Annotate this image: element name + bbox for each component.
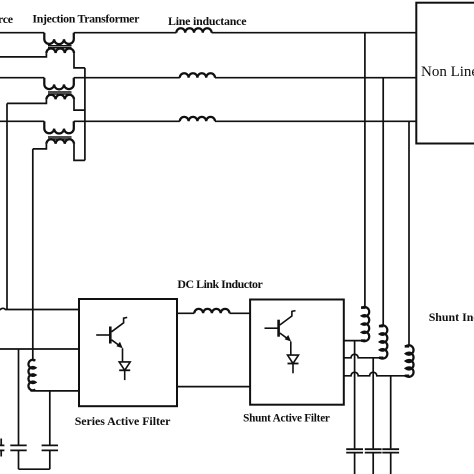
svg-text:DC Link Inductor: DC Link Inductor	[177, 277, 263, 291]
wire phase C line segment	[74, 120, 180, 122]
transistor Q	[277, 320, 280, 337]
wire drop to capacitor C6	[390, 376, 392, 449]
line inductance L1	[176, 28, 211, 32]
shunt inductor L6	[379, 325, 384, 328]
svg-text:urce: urce	[0, 12, 13, 26]
wire phase C to load	[215, 120, 416, 122]
transistor Q	[109, 327, 112, 344]
wire dc link top left	[177, 312, 194, 314]
wire T3 secondary right lead	[74, 144, 85, 161]
series active filter box U1	[79, 299, 177, 406]
wire phase A line segment	[74, 32, 177, 34]
wire capacitor common bottom	[19, 468, 50, 470]
diode D	[119, 362, 130, 370]
capacitor C4	[346, 449, 363, 452]
wire series filter input A (with crossover hop at source bus)	[0, 308, 79, 309]
wire series filter input C from L4	[33, 390, 79, 391]
svg-text:Injection Transformer: Injection Transformer	[32, 11, 140, 25]
shunt active filter box U2	[250, 300, 344, 405]
capacitor C1 (at image edge)	[0, 439, 2, 445]
transformer T2 core	[48, 92, 72, 94]
wire drop to capacitor C2	[18, 349, 20, 445]
wire drop to capacitor C4	[354, 341, 356, 449]
wire drop to capacitor C3	[49, 391, 51, 445]
wire T3 secondary left lead	[33, 144, 47, 149]
wire shunt branch B (vertical drop from phase B)	[382, 78, 384, 326]
wire T2 secondary left lead	[7, 99, 46, 103]
capacitor C3	[42, 445, 58, 450]
transformer T3 secondary winding	[46, 139, 74, 144]
wire shunt filter output 3 (hops over drops 1,2)	[344, 372, 409, 376]
wire phase B source segment	[0, 77, 44, 79]
svg-text:Shunt Active Filter: Shunt Active Filter	[243, 413, 330, 425]
transformer T3 core	[48, 137, 72, 139]
wire drop to capacitor C5	[372, 358, 374, 449]
wire from T3 secondary left down to filter inductor L4	[32, 149, 34, 361]
svg-text:Line inductance: Line inductance	[168, 14, 247, 28]
diode D	[288, 355, 299, 363]
shunt inductor L7	[405, 345, 410, 348]
injection transformer T2 primary winding	[44, 78, 74, 90]
shunt inductor L5	[361, 306, 366, 309]
injection transformer T1 primary winding	[44, 33, 74, 44]
wire dc link bottom	[177, 386, 250, 388]
wire shunt filter output 2 (hops over drop 1)	[344, 354, 383, 358]
capacitor C2	[10, 445, 26, 450]
svg-text:Shunt Inductor: Shunt Inductor	[429, 310, 474, 324]
wire phase B line segment	[74, 77, 180, 79]
wire T2 secondary right lead	[74, 99, 85, 110]
svg-text:Series Active Filter: Series Active Filter	[75, 414, 171, 428]
dc link inductor L8	[194, 309, 229, 313]
transformer T1 secondary winding	[46, 48, 74, 53]
wire series filter input B	[0, 348, 79, 350]
transformer T2 secondary winding	[46, 95, 74, 100]
line inductance L3	[180, 117, 215, 121]
wire phase C source segment	[0, 120, 44, 122]
transformer T1 core	[48, 46, 72, 48]
capacitor C6	[382, 449, 399, 452]
wire dc link top right	[230, 312, 251, 314]
svg-text:Non Linear: Non Linear	[421, 64, 474, 80]
non linear load box	[416, 3, 474, 144]
wire T1 secondary right lead	[74, 53, 85, 68]
wire from T2 secondary left down to series filter input A	[6, 103, 8, 309]
wire secondary common bus (vertical)	[84, 68, 86, 160]
wire T1 secondary left lead	[0, 53, 46, 57]
line inductance L2	[180, 73, 215, 77]
filter inductor L4	[33, 360, 36, 362]
wire shunt branch C (vertical drop from phase C)	[408, 121, 410, 346]
wire phase B to load	[215, 77, 416, 79]
wire phase A to load	[212, 32, 417, 34]
injection transformer T3 primary winding	[44, 121, 74, 133]
wire phase A source segment	[0, 32, 44, 34]
capacitor C5	[365, 449, 382, 452]
wire shunt branch A (vertical drop from phase A)	[364, 33, 366, 308]
wire shunt filter output 1	[344, 340, 366, 342]
